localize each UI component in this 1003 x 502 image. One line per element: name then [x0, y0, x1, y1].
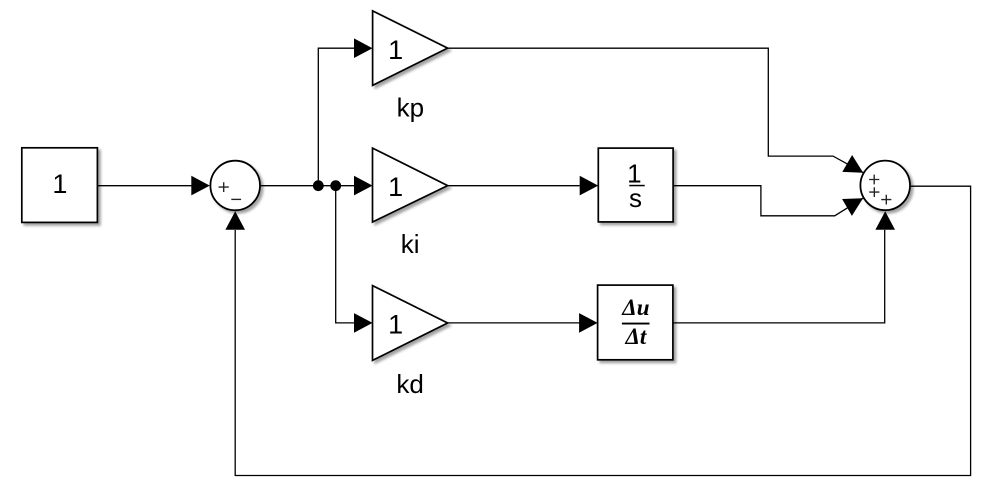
- svg-text:ki: ki: [401, 229, 420, 259]
- svg-text:kp: kp: [397, 92, 424, 122]
- svg-text:kd: kd: [396, 369, 423, 399]
- svg-text:Δt: Δt: [624, 324, 646, 349]
- svg-text:1: 1: [52, 169, 67, 199]
- svg-text:Δu: Δu: [621, 295, 649, 320]
- svg-text:1: 1: [388, 172, 403, 202]
- svg-text:1: 1: [388, 35, 403, 65]
- svg-text:s: s: [629, 183, 642, 213]
- svg-text:1: 1: [388, 310, 403, 340]
